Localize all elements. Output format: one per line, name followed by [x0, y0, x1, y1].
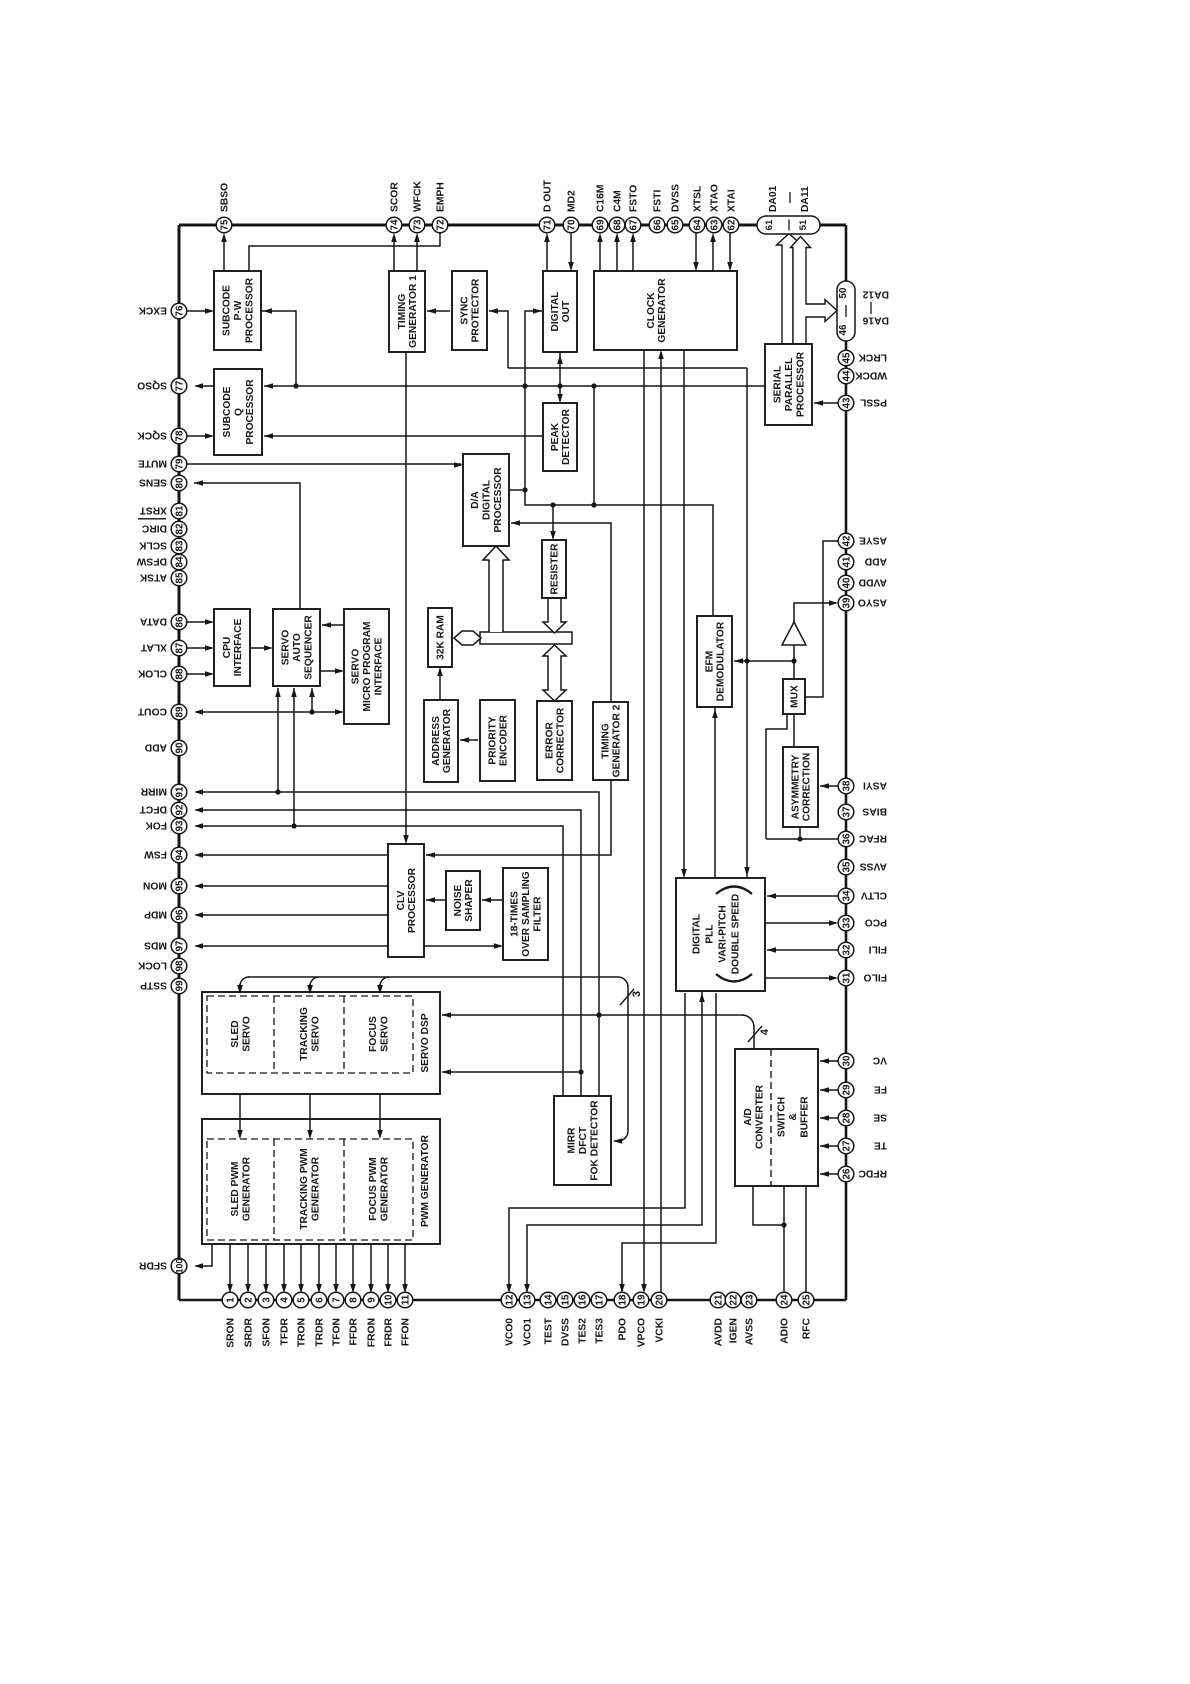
svg-text:50: 50: [838, 287, 849, 298]
svg-text:87: 87: [174, 642, 185, 653]
wire RFDC pin 26 to A/D converter: [820, 1173, 838, 1175]
svg-text:C4M: C4M: [613, 190, 624, 212]
pin 20 VCKI: [651, 1292, 667, 1308]
svg-text:17: 17: [594, 1294, 605, 1305]
wire FSW pin 94 from CLV processor: [196, 854, 388, 856]
svg-text:28: 28: [841, 1112, 852, 1123]
wire COUT net pin 89 to servo micro program interface: [196, 711, 342, 713]
bus serial parallel processor to DA12-DA16 pins: [791, 237, 838, 345]
wire PWM generator output to pin 10: [387, 1244, 389, 1291]
svg-text:FOCUSSERVO: FOCUSSERVO: [368, 1016, 391, 1052]
svg-text:DA16: DA16: [862, 315, 889, 326]
pin 44 WDCK: [838, 368, 854, 384]
svg-text:TE: TE: [874, 1139, 887, 1150]
wire Subcode P-W right input from SQSO net: [261, 311, 296, 386]
svg-text:SQCK: SQCK: [137, 429, 167, 440]
svg-text:70: 70: [566, 219, 577, 230]
svg-text:36: 36: [841, 833, 852, 844]
svg-text:DA12: DA12: [862, 289, 889, 300]
wire frame sync net down to digital PLL: [746, 368, 748, 878]
svg-text:40: 40: [841, 577, 852, 588]
wire PWM generator output to pin 5: [300, 1244, 302, 1291]
svg-text:5: 5: [296, 1297, 307, 1303]
svg-text:BIAS: BIAS: [862, 805, 887, 816]
svg-text:DVSS: DVSS: [561, 1318, 572, 1346]
wire COUT to servo auto sequencer: [311, 688, 313, 712]
wire sync protector to timing generator 1: [427, 310, 450, 312]
wire bus4 A/D converter to servo DSP: [442, 1014, 742, 1016]
block register U10: [542, 540, 566, 598]
svg-text:98: 98: [174, 960, 185, 971]
wire PWM generator output to pin 11: [404, 1244, 406, 1291]
wire C16M clock generator to pin 69: [599, 236, 601, 271]
svg-text:AVSS: AVSS: [745, 1318, 756, 1345]
wire PDO digital PLL to pin 18: [622, 993, 716, 1291]
pin 87 XLAT: [171, 640, 187, 656]
svg-text:EXCK: EXCK: [138, 304, 167, 315]
pin 10 FRDR: [380, 1292, 396, 1308]
wire net to MUX: [793, 661, 795, 679]
pin 38 ASYI: [838, 778, 854, 794]
pin 68 C4M: [609, 217, 625, 233]
svg-text:13: 13: [522, 1294, 533, 1305]
pin 35 AVSS: [838, 859, 854, 875]
svg-text:92: 92: [174, 804, 185, 815]
svg-text:14: 14: [543, 1294, 554, 1305]
pin 41 ADD: [838, 554, 854, 570]
pin 29 FE: [838, 1082, 854, 1098]
svg-text:76: 76: [174, 305, 185, 316]
block priority encoder U16: [480, 700, 515, 781]
block servo micro program interface U14: [344, 609, 389, 724]
wire D/A digital processor data tap: [509, 489, 525, 491]
block CLV processor U22: [388, 844, 424, 957]
svg-text:MDS: MDS: [144, 939, 167, 950]
svg-text:91: 91: [174, 786, 185, 797]
block timing generator 1 U3: [389, 271, 425, 352]
pin 40 AVDD: [838, 575, 854, 591]
svg-text:SLEDSERVO: SLEDSERVO: [230, 1016, 253, 1052]
block error corrector U17: [537, 701, 572, 780]
pin 19 VPCO: [633, 1292, 649, 1308]
svg-text:SCLK: SCLK: [138, 539, 167, 550]
wire PWM generator output to pin 7: [335, 1244, 337, 1291]
svg-text:C16M: C16M: [596, 185, 607, 212]
wire CLOK pin 88 to CPU interface: [186, 673, 212, 675]
svg-text:FILI: FILI: [869, 943, 887, 954]
svg-text:9: 9: [366, 1297, 377, 1303]
svg-text:SCOR: SCOR: [390, 182, 401, 212]
wire priority encoder to address generator: [460, 739, 478, 741]
wire SCOR timing generator 1 to pin 74: [393, 236, 395, 271]
svg-text:41: 41: [841, 556, 852, 567]
svg-text:38: 38: [841, 780, 852, 791]
svg-text:65: 65: [670, 219, 681, 230]
wire VCKI pin 20 to clock generator: [660, 352, 662, 1293]
svg-text:AVSS: AVSS: [860, 860, 887, 871]
pin 98 LOCK: [171, 958, 187, 974]
svg-text:31: 31: [841, 972, 852, 983]
svg-text:MON: MON: [143, 879, 167, 890]
svg-text:SLED PWMGENERATOR: SLED PWMGENERATOR: [230, 1156, 253, 1221]
wire MDP pin 96 from CLV processor: [196, 914, 388, 916]
pin 100 SFDR: [171, 1258, 187, 1274]
svg-text:WDCK: WDCK: [854, 369, 887, 380]
svg-text:77: 77: [174, 380, 185, 391]
svg-text:VCO1: VCO1: [523, 1318, 534, 1346]
pin 9 FRON: [363, 1292, 379, 1308]
wire SFDR PWM generator to pin 100: [196, 1244, 212, 1266]
svg-text:8: 8: [348, 1297, 359, 1303]
pin 4 TFDR: [276, 1292, 292, 1308]
wire noise shaper to CLV processor: [426, 899, 446, 901]
svg-text:AVDD: AVDD: [859, 576, 887, 587]
pin 80 SENS: [171, 475, 187, 491]
pin 97 MDS: [171, 938, 187, 954]
svg-text:10: 10: [383, 1294, 394, 1305]
svg-text:FSTO: FSTO: [629, 185, 640, 212]
wire PWM generator output to pin 9: [370, 1244, 372, 1291]
wire EFM demodulator input net: [734, 660, 794, 662]
svg-text:SRDR: SRDR: [244, 1317, 255, 1347]
pin 61-51 DA01-DA11 group: [757, 216, 820, 234]
svg-text:ASYO: ASYO: [858, 596, 887, 607]
svg-text:FSTI: FSTI: [653, 190, 664, 212]
svg-text:68: 68: [612, 219, 623, 230]
svg-text:PDO: PDO: [618, 1318, 629, 1340]
wire RFAC net pin 36: [766, 838, 838, 840]
svg-text:51: 51: [798, 219, 809, 230]
block clock generator U6: [594, 271, 737, 350]
svg-text:TFDR: TFDR: [280, 1317, 291, 1345]
pin 81 XRST: [171, 503, 187, 519]
wire MIRR to servo auto sequencer: [277, 688, 279, 792]
wire EXCK pin 76 to Subcode P-W: [186, 310, 212, 312]
pin 95 MON: [171, 878, 187, 894]
svg-text:ASYI: ASYI: [863, 779, 887, 790]
svg-text:25: 25: [801, 1294, 812, 1305]
wire PCO digital PLL to pin 33: [765, 922, 836, 924]
svg-text:3: 3: [261, 1297, 272, 1303]
block 32K RAM U11: [428, 608, 452, 667]
svg-text:4: 4: [759, 1028, 771, 1035]
wire timing generator 1 to CLV processor: [405, 352, 407, 842]
svg-text:46: 46: [838, 324, 849, 335]
svg-text:85: 85: [174, 572, 185, 583]
wire FOK net pin 93 to detector: [196, 826, 563, 1096]
svg-text:21: 21: [713, 1294, 724, 1305]
pin 33 PCO: [838, 915, 854, 931]
wire SQSO data net horizontal to serial parallel processor: [264, 385, 765, 387]
svg-text:19: 19: [636, 1294, 647, 1305]
pin 93 FOK: [171, 818, 187, 834]
block peak detector U8: [543, 403, 577, 471]
wire asymmetry correction output: [799, 827, 801, 839]
pin 11 FFON: [397, 1292, 413, 1308]
block MIRR DFCT FOK detector U25: [554, 1096, 611, 1185]
pin 2 SRDR: [240, 1292, 256, 1308]
svg-text:FOCUS PWMGENERATOR: FOCUS PWMGENERATOR: [368, 1156, 391, 1221]
svg-text:93: 93: [174, 820, 185, 831]
pin 70 MD2: [563, 217, 579, 233]
svg-text:FRON: FRON: [367, 1318, 378, 1347]
svg-text:FOK: FOK: [145, 819, 167, 830]
svg-text:66: 66: [652, 219, 663, 230]
pin 25 RFC: [798, 1292, 814, 1308]
svg-text:ADDRESSGENERATOR: ADDRESSGENERATOR: [431, 708, 453, 773]
svg-text:ADIO: ADIO: [780, 1318, 791, 1344]
block EFM demodulator U19: [697, 616, 732, 707]
svg-text:SENS: SENS: [139, 476, 167, 487]
wire ADIO net pin 24: [783, 1186, 785, 1293]
wire MIRR net pin 91 to detector: [196, 792, 599, 1096]
svg-text:83: 83: [174, 540, 185, 551]
wire DFCT net pin 92 to detector: [196, 810, 581, 1096]
pin 6 TRDR: [311, 1292, 327, 1308]
svg-text:88: 88: [174, 668, 185, 679]
pin 86 DATA: [171, 614, 187, 630]
wire PWM generator output to pin 1: [229, 1244, 231, 1291]
pin 85 ATSK: [171, 570, 187, 586]
pin 28 SE: [838, 1110, 854, 1126]
svg-text:67: 67: [628, 219, 639, 230]
wire XTSL pin 64 to clock generator: [695, 232, 697, 269]
wire MDS pin 97 from CLV processor: [196, 945, 388, 947]
wire CLTV pin 34 to digital PLL: [767, 895, 838, 897]
wire FOK to servo auto sequencer: [293, 688, 295, 826]
wire amplifier input: [793, 645, 795, 661]
svg-text:MUTE: MUTE: [138, 457, 167, 468]
svg-text:PSSL: PSSL: [860, 396, 887, 407]
block CPU interface U12: [214, 609, 250, 686]
wire chip frame top edge: [179, 224, 846, 227]
svg-text:32: 32: [841, 944, 852, 955]
wire VCO0 digital PLL to pin 12: [509, 993, 685, 1291]
pin 94 FSW: [171, 847, 187, 863]
svg-text:MDP: MDP: [144, 908, 167, 919]
svg-text:AVDD: AVDD: [714, 1318, 725, 1346]
svg-text:37: 37: [841, 806, 852, 817]
svg-text:VCO0: VCO0: [505, 1318, 516, 1346]
pin 84 DFSW: [171, 554, 187, 570]
svg-text:SBSO: SBSO: [220, 183, 231, 212]
svg-text:DA01: DA01: [768, 185, 779, 212]
wire VC pin 30 to A/D converter: [820, 1060, 838, 1062]
wire arrowheads into servo DSP cells: [239, 984, 241, 992]
pin 67 FSTO: [625, 217, 641, 233]
pin 74 SCOR: [386, 217, 402, 233]
wire MD2 pin 70 to digital out: [570, 232, 572, 269]
svg-text:27: 27: [841, 1140, 852, 1151]
pin 88 CLOK: [171, 666, 187, 682]
wire servo micro program interface to servo auto sequencer: [322, 624, 344, 626]
svg-text:97: 97: [174, 940, 185, 951]
svg-text:DFSW: DFSW: [136, 555, 167, 566]
pin 63 XTAO: [706, 217, 722, 233]
svg-text:TRACKING PWMGENERATOR: TRACKING PWMGENERATOR: [299, 1148, 322, 1230]
pin 79 MUTE: [171, 456, 187, 472]
svg-text:11: 11: [400, 1294, 411, 1305]
svg-text:DIRC: DIRC: [141, 522, 167, 533]
svg-text:30: 30: [841, 1055, 852, 1066]
bus data bus to error corrector: [543, 645, 566, 701]
pin 82 DIRC: [171, 521, 187, 537]
svg-text:ATSK: ATSK: [139, 571, 167, 582]
wire PWM generator output to pin 3: [265, 1244, 267, 1291]
bus3 width slash: [620, 989, 634, 1005]
svg-text:22: 22: [728, 1294, 739, 1305]
block A/D converter switch and buffer U27: [735, 1049, 818, 1186]
wire address generator to 32K RAM: [439, 669, 441, 700]
wire chip frame left edge: [178, 225, 181, 1300]
wire EFM data net digital out tap to EFM demodulator: [525, 311, 713, 616]
block serial parallel processor U7: [765, 344, 812, 425]
wire servo auto sequencer to servo micro program interface: [320, 670, 342, 672]
svg-text:WFCK: WFCK: [413, 181, 424, 212]
svg-text:FE: FE: [874, 1083, 887, 1094]
svg-text:SFDR: SFDR: [138, 1259, 167, 1270]
svg-text:DVSS: DVSS: [671, 184, 682, 212]
wire XTAI pin 62 to clock generator: [729, 232, 731, 269]
wire VCO1 pin 13 to digital PLL: [527, 995, 702, 1291]
wire MUTE pin 79 to D/A digital processor: [186, 463, 461, 465]
pin 3 SFON: [258, 1292, 274, 1308]
pin 39 ASYO: [838, 595, 854, 611]
block asymmetry correction U21: [783, 747, 818, 827]
block address generator U15: [424, 700, 458, 782]
svg-text:CLOK: CLOK: [137, 667, 167, 678]
pin 23 AVSS: [741, 1292, 757, 1308]
wire arrowhead VCO1 into digital PLL: [701, 991, 703, 995]
svg-text:VPCO: VPCO: [637, 1318, 648, 1347]
block noise shaper U23: [446, 871, 480, 930]
svg-text:SE: SE: [873, 1111, 887, 1122]
svg-text:ASYE: ASYE: [859, 534, 887, 545]
pin 36 RFAC: [838, 831, 854, 847]
wire digital PLL to EFM demodulator: [714, 707, 716, 878]
pin 45 LRCK: [838, 350, 854, 366]
svg-text:29: 29: [841, 1084, 852, 1095]
svg-text:81: 81: [174, 505, 185, 516]
wire SENS servo auto sequencer to pin 80: [194, 483, 300, 609]
pin 8 FFDR: [345, 1292, 361, 1308]
svg-text:RFC: RFC: [802, 1317, 813, 1339]
svg-text:SRON: SRON: [226, 1318, 237, 1348]
wire VPCO clock net to pin 19: [643, 350, 645, 1291]
svg-text:XLAT: XLAT: [140, 641, 167, 652]
svg-text:TRON: TRON: [297, 1318, 308, 1347]
wire FE pin 29 to A/D converter: [820, 1089, 838, 1091]
svg-text:DFCT: DFCT: [139, 803, 167, 814]
svg-text:PRIORITYENCODER: PRIORITYENCODER: [487, 714, 509, 766]
svg-text:80: 80: [174, 477, 185, 488]
wire PWM generator output to pin 4: [283, 1244, 285, 1291]
svg-text:FSW: FSW: [144, 848, 167, 859]
pin 22 IGEN: [725, 1292, 741, 1308]
wire frame sync to sync protector: [489, 311, 508, 368]
svg-text:MIRR: MIRR: [140, 785, 167, 796]
wire clock generator to digital PLL: [683, 350, 685, 876]
svg-text:XTSL: XTSL: [693, 186, 704, 212]
pin 75 SBSO: [216, 217, 232, 233]
pin 32 FILI: [838, 942, 854, 958]
svg-text:ADD: ADD: [145, 741, 167, 752]
svg-text:39: 39: [841, 597, 852, 608]
pin 14 TEST: [540, 1292, 556, 1308]
pin 92 DFCT: [171, 802, 187, 818]
pin 5 TRON: [293, 1292, 309, 1308]
svg-text:78: 78: [174, 430, 185, 441]
svg-text:FFDR: FFDR: [349, 1317, 360, 1345]
wire C4M clock generator to pin 68: [616, 236, 618, 271]
pin 26 RFDC: [838, 1166, 854, 1182]
svg-text:FRDR: FRDR: [384, 1317, 395, 1346]
svg-text:EMPH: EMPH: [436, 182, 447, 212]
svg-text:4: 4: [279, 1297, 290, 1303]
pin 71 D OUT: [539, 217, 555, 233]
pin 91 MIRR: [171, 784, 187, 800]
svg-text:44: 44: [841, 370, 852, 381]
pin 90 ADD: [171, 740, 187, 756]
wire RFC pin 25 to A/D converter: [805, 1186, 807, 1293]
svg-text:16: 16: [577, 1294, 588, 1305]
wire chip frame bottom edge: [179, 1299, 846, 1302]
block D/A digital processor U9: [463, 454, 509, 546]
wire ASYI pin 38 to asymmetry correction: [820, 785, 838, 787]
svg-text:SERVO DSP: SERVO DSP: [420, 1013, 431, 1072]
svg-text:CLTV: CLTV: [861, 889, 887, 900]
wire SE pin 28 to A/D converter: [820, 1117, 838, 1119]
wire WFCK timing generator 1 to pin 73: [416, 236, 418, 271]
svg-text:DATA: DATA: [139, 615, 167, 626]
svg-text:24: 24: [779, 1294, 790, 1305]
svg-text:90: 90: [174, 742, 185, 753]
svg-text:33: 33: [841, 917, 852, 928]
pin 42 ASYE: [838, 533, 854, 549]
pin 62 XTAI: [723, 217, 739, 233]
wire PSSL pin 43 to serial parallel processor: [814, 402, 838, 404]
pin 16 TES2: [574, 1292, 590, 1308]
svg-text:100: 100: [174, 1259, 184, 1274]
wire CLV processor to oversampling filter: [424, 945, 501, 947]
pin 34 CLTV: [838, 888, 854, 904]
svg-text:TES2: TES2: [578, 1318, 589, 1344]
pin 72 EMPH: [432, 217, 448, 233]
pin 66 FSTI: [649, 217, 665, 233]
svg-text:1: 1: [225, 1297, 236, 1303]
pin 64 XTSL: [689, 217, 705, 233]
pin 18 PDO: [614, 1292, 630, 1308]
wire MUX to asymmetry correction: [793, 714, 795, 747]
pin 96 MDP: [171, 907, 187, 923]
svg-text:ASYMMETRYCORRECTION: ASYMMETRYCORRECTION: [790, 753, 812, 821]
svg-text:SFON: SFON: [262, 1318, 273, 1347]
svg-text:FILO: FILO: [864, 971, 887, 982]
pin 7 TFON: [328, 1292, 344, 1308]
pin 1 SRON: [222, 1292, 238, 1308]
wire FSTO clock generator to pin 67: [632, 236, 634, 271]
svg-text:6: 6: [314, 1297, 325, 1303]
svg-text:99: 99: [174, 980, 185, 991]
block MUX U20: [783, 679, 805, 714]
wire servo to PWM generator: [239, 1073, 241, 1137]
wire SBSO output Subcode P-W to pin 75: [223, 236, 225, 271]
wire arrowheads into PWM generator cells: [239, 1119, 241, 1137]
svg-text:2: 2: [243, 1297, 254, 1303]
block timing generator 2 U18: [593, 702, 628, 780]
svg-text:VCKI: VCKI: [655, 1318, 666, 1343]
pin 46-50 DA12-DA16 group: [837, 281, 855, 341]
